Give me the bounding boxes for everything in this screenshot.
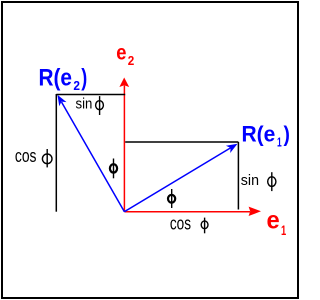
svg-text:cos: cos [15, 145, 37, 166]
svg-text:sin: sin [76, 96, 93, 113]
svg-text:sin: sin [241, 172, 259, 189]
svg-text:R(e: R(e [39, 64, 73, 91]
svg-text:e: e [267, 207, 280, 235]
svg-text:R(e: R(e [242, 122, 276, 147]
svg-text:cos: cos [170, 213, 191, 233]
svg-text:): ) [81, 64, 87, 91]
svg-text:2: 2 [128, 53, 135, 68]
svg-text:2: 2 [73, 78, 80, 93]
svg-text:1: 1 [277, 135, 282, 150]
angle label phi (between e1 axis and R(e1)) [168, 195, 175, 203]
vector R(e1) (blue) [124, 147, 232, 212]
svg-text:): ) [284, 122, 290, 147]
angle label phi (between R(e2) and e2 axis) [110, 164, 117, 172]
projection line: vertical sin(phi) at right [237, 142, 239, 210]
projection line: horizontal sin(phi) at top of R(e2) [56, 94, 125, 96]
projection line: vertical cos(phi) at left [55, 94, 57, 212]
arrowhead of R(e2) [57, 95, 66, 107]
svg-text:e: e [116, 42, 126, 65]
projection line: horizontal cos(phi) at top of R(e1) [125, 141, 238, 143]
arrowhead of R(e1) [226, 144, 238, 153]
svg-text:1: 1 [281, 222, 286, 238]
axis e1 (red horizontal) [124, 211, 250, 213]
axis e2 (red vertical) [123, 86, 125, 212]
arrowhead of e2 axis [119, 78, 129, 88]
vector R(e2) (blue) [62, 102, 125, 212]
arrowhead of e1 axis [249, 207, 261, 216]
